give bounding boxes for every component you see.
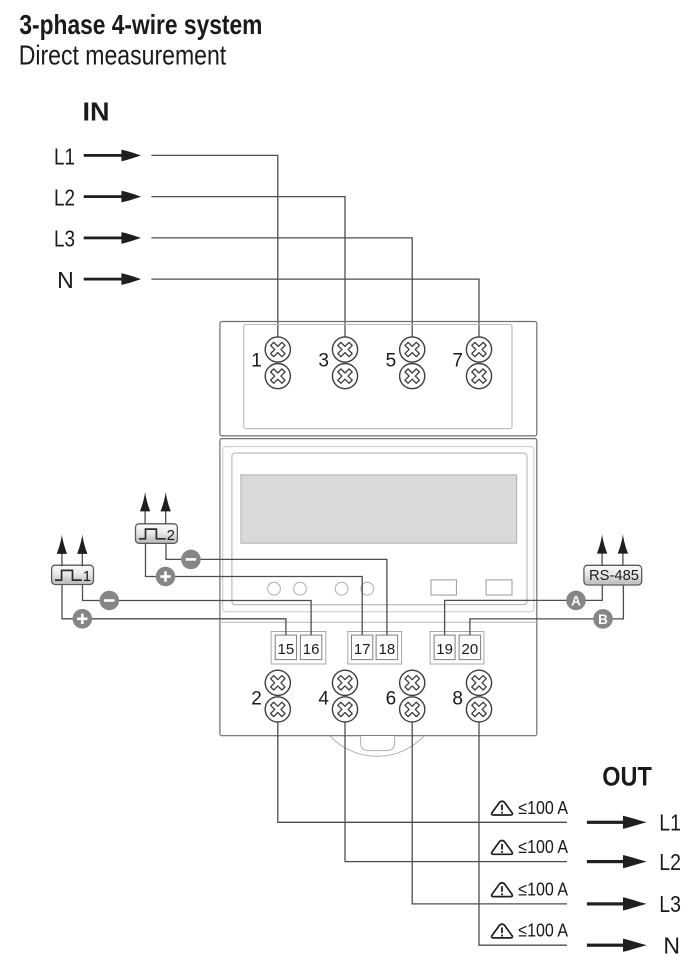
svg-text:2: 2 bbox=[251, 688, 262, 709]
svg-text:L3: L3 bbox=[54, 226, 75, 252]
terminal box 20 bbox=[459, 635, 481, 660]
arrow L1 in bbox=[84, 150, 141, 162]
svg-text:L2: L2 bbox=[659, 849, 681, 875]
wire L3 to terminal 5 bbox=[151, 238, 412, 338]
button 4 bbox=[361, 582, 374, 595]
arrow OUT L2 bbox=[587, 855, 647, 868]
svg-text:19: 19 bbox=[436, 641, 453, 658]
meter main body outline bbox=[220, 439, 537, 736]
meter top section outline bbox=[220, 322, 537, 436]
pulse 1 arrow a bbox=[57, 534, 67, 566]
warning triangle N bbox=[492, 924, 513, 938]
svg-text:≤100 A: ≤100 A bbox=[518, 921, 568, 941]
svg-text:L1: L1 bbox=[54, 143, 75, 169]
pulse 1 arrow b bbox=[77, 534, 87, 566]
svg-text:L2: L2 bbox=[54, 185, 75, 211]
plus node pulse 1 bbox=[73, 609, 93, 629]
arrow N in bbox=[84, 273, 141, 285]
arrow L3 in bbox=[84, 232, 141, 244]
svg-text:N: N bbox=[663, 932, 680, 958]
RS-485 arrow b bbox=[618, 534, 628, 566]
wire terminal 6 to OUT L3 bbox=[412, 722, 567, 904]
svg-text:1: 1 bbox=[83, 568, 91, 585]
svg-text:17: 17 bbox=[354, 641, 371, 658]
svg-text:L3: L3 bbox=[659, 891, 681, 917]
svg-text:N: N bbox=[57, 267, 74, 293]
button 1 bbox=[268, 582, 281, 595]
wire N to terminal 7 bbox=[151, 279, 479, 338]
svg-text:B: B bbox=[598, 612, 608, 627]
RS-485 wires to terminals 19/20 bbox=[445, 585, 603, 635]
svg-text:3-phase 4-wire system: 3-phase 4-wire system bbox=[19, 9, 262, 40]
warning triangle L3 bbox=[492, 883, 513, 897]
terminal box 17 bbox=[352, 635, 373, 660]
svg-text:RS-485: RS-485 bbox=[589, 567, 639, 584]
pulse output S0-2 box bbox=[136, 524, 178, 544]
terminal box 15 bbox=[275, 635, 296, 660]
meter top inner panel bbox=[244, 325, 512, 429]
svg-text:4: 4 bbox=[318, 688, 329, 709]
svg-text:≤100 A: ≤100 A bbox=[518, 879, 568, 899]
svg-text:16: 16 bbox=[303, 641, 320, 658]
terminal 3 screws bbox=[332, 337, 357, 389]
svg-text:Direct measurement: Direct measurement bbox=[19, 40, 227, 71]
RS-485 arrow a bbox=[597, 534, 607, 566]
arrow OUT L3 bbox=[587, 897, 647, 910]
node A bbox=[566, 591, 586, 611]
wire L1 to terminal 1 bbox=[151, 155, 277, 338]
wire L2 to terminal 3 bbox=[151, 197, 345, 338]
terminal 8 screws bbox=[466, 670, 491, 722]
svg-text:≤100 A: ≤100 A bbox=[518, 798, 568, 818]
svg-text:20: 20 bbox=[462, 641, 479, 658]
pulse 2 arrow b bbox=[161, 492, 171, 524]
svg-text:5: 5 bbox=[386, 351, 397, 372]
terminal 6 screws bbox=[400, 670, 425, 722]
pulse output S0-1 box bbox=[52, 565, 94, 585]
button 2 bbox=[294, 582, 307, 595]
svg-text:1: 1 bbox=[251, 351, 262, 372]
meter body inner rect bbox=[223, 447, 534, 612]
svg-text:A: A bbox=[571, 593, 581, 608]
arrow OUT N bbox=[587, 939, 647, 952]
minus node pulse 1 bbox=[100, 591, 120, 611]
warning triangle L2 bbox=[492, 841, 513, 855]
face slot 1 bbox=[431, 580, 456, 595]
wire terminal 4 to OUT L2 bbox=[345, 722, 567, 862]
terminal 5 screws bbox=[400, 337, 425, 389]
pulse output S0-2 wires to terminals 17/18 bbox=[146, 543, 363, 635]
plus node pulse 2 bbox=[156, 567, 176, 587]
pulse output S0-1 wires to terminals 15/16 bbox=[62, 584, 286, 635]
button 3 bbox=[335, 582, 348, 595]
node B bbox=[593, 609, 613, 629]
wire terminal 2 to OUT L1 bbox=[278, 722, 567, 823]
arrow OUT L1 bbox=[587, 816, 647, 829]
terminal 1 screws bbox=[265, 337, 290, 389]
svg-text:6: 6 bbox=[386, 688, 397, 709]
svg-text:2: 2 bbox=[167, 527, 175, 544]
svg-text:7: 7 bbox=[452, 351, 463, 372]
svg-text:8: 8 bbox=[452, 688, 463, 709]
arrow L2 in bbox=[84, 191, 141, 203]
svg-text:≤100 A: ≤100 A bbox=[518, 837, 568, 857]
LCD display bbox=[241, 475, 517, 543]
meter face panel bbox=[232, 453, 527, 605]
terminal box 19 bbox=[434, 635, 455, 660]
wire terminal 8 to OUT N bbox=[479, 722, 567, 946]
terminal 4 screws bbox=[332, 670, 357, 722]
terminal strip 17/18 outer bbox=[348, 632, 402, 665]
minus node pulse 2 bbox=[181, 550, 201, 570]
RS-485 box bbox=[584, 565, 642, 585]
svg-text:IN: IN bbox=[83, 96, 110, 126]
terminal 2 screws bbox=[265, 670, 290, 722]
terminal strip 19/20 outer bbox=[430, 632, 484, 665]
svg-text:L1: L1 bbox=[659, 810, 681, 836]
svg-text:OUT: OUT bbox=[602, 761, 652, 791]
pulse 2 arrow a bbox=[140, 492, 150, 524]
DIN clip tab bbox=[361, 736, 395, 751]
terminal strip 15/16 outer bbox=[271, 632, 326, 665]
terminal box 16 bbox=[300, 635, 321, 660]
terminal 7 screws bbox=[466, 337, 491, 389]
svg-text:3: 3 bbox=[318, 351, 329, 372]
svg-text:18: 18 bbox=[379, 641, 396, 658]
terminal box 18 bbox=[376, 635, 398, 660]
warning triangle L1 bbox=[492, 801, 513, 815]
face slot 2 bbox=[486, 580, 512, 595]
svg-text:15: 15 bbox=[278, 641, 295, 658]
meter body mould line bbox=[220, 621, 537, 623]
DIN clip arc bbox=[330, 736, 424, 756]
